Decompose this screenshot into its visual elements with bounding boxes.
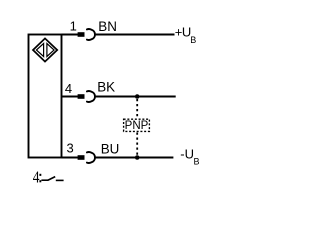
svg-text:BK: BK <box>97 79 115 94</box>
svg-text:3: 3 <box>66 140 73 155</box>
junction node on BK wire <box>135 94 140 99</box>
svg-text:PNP: PNP <box>125 120 149 132</box>
connector female socket 3 <box>87 152 95 163</box>
NO contact symbol <box>41 177 63 181</box>
connector male pin 3 <box>78 155 85 160</box>
junction node on BU wire <box>135 155 140 160</box>
wire BK (output) <box>95 96 175 98</box>
legend: pin 4 normally-open contact <box>33 168 40 187</box>
svg-text:4: 4 <box>65 81 72 96</box>
legend colon <box>39 174 41 176</box>
wire from sensor pin 4 to connector <box>62 96 79 98</box>
dashed load line lower segment <box>136 133 138 157</box>
svg-text:B: B <box>190 35 196 45</box>
svg-text:-U: -U <box>180 147 194 162</box>
sensor body outline <box>29 35 62 158</box>
svg-text:+U: +U <box>175 25 191 40</box>
connector male pin 1 <box>78 32 85 37</box>
wire BU to -UB <box>95 157 173 159</box>
svg-text:B: B <box>194 157 200 167</box>
svg-text:BU: BU <box>101 141 120 156</box>
wire from sensor pin 3 to connector <box>62 157 79 159</box>
connector female socket 1 <box>87 29 95 40</box>
svg-text:4: 4 <box>33 168 40 187</box>
svg-text:1: 1 <box>70 18 77 33</box>
connector male pin 4 <box>78 94 85 99</box>
proximity sensor symbol (diamond with triangles) <box>33 38 57 61</box>
wire from sensor pin 1 to connector <box>62 34 79 36</box>
wire BN to +UB <box>95 34 174 36</box>
PNP output box <box>124 119 150 131</box>
connector female socket 4 <box>87 91 95 102</box>
dashed load line upper segment <box>136 99 138 119</box>
svg-text:BN: BN <box>98 19 117 34</box>
